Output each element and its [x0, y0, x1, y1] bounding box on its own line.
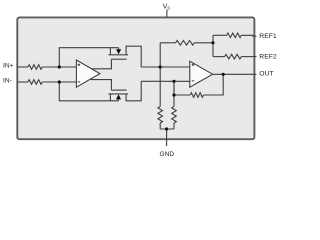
resistor R3 (to GND) [158, 107, 163, 124]
transistor Q1 source stub [109, 48, 111, 55]
op-amp A2 plus marker [192, 64, 195, 67]
wire Q1 drain to A2 + node [126, 46, 141, 67]
wire REF node to R6 [213, 34, 227, 36]
wire R6 to REF1 pin [241, 34, 256, 37]
op-amp A1 [76, 60, 100, 87]
svg-text:REF1: REF1 [259, 33, 277, 40]
transistor Q1 body arrow (down) [116, 49, 121, 54]
transistor Q1 gate plate [111, 58, 126, 60]
wire REF node to R7 [213, 56, 225, 58]
transistor Q2 channel [108, 93, 128, 95]
svg-text:OUT: OUT [259, 71, 273, 78]
node IN- junction [58, 80, 61, 83]
resistor R8 (A2 feedback) [190, 93, 203, 98]
wire R1 to A1 + input [42, 66, 76, 68]
wire A2 - input node line [141, 80, 190, 82]
transistor Q2 gate plate [111, 89, 126, 91]
wire R5 to REF node [194, 42, 213, 44]
wire A2 output to OUT pin [213, 73, 257, 75]
wire R7 to REF2 pin [241, 56, 256, 58]
node A2 + input junction [159, 65, 162, 68]
node A2 - input junction [172, 80, 175, 83]
wire REF divider tap down to A2 + node and R3 [159, 43, 161, 107]
transistor Q2 body arrow (up) [116, 94, 121, 99]
transistor Q2 body arrow stem [118, 99, 120, 100]
node IN+ junction [58, 65, 61, 68]
wire A2 + input node line [141, 66, 190, 68]
wire OUT feedback drop [203, 74, 223, 95]
resistor R6 (REF1) [227, 33, 242, 38]
op-amp A1 minus marker [78, 81, 81, 83]
wire REF node vertical [212, 35, 214, 56]
Vs supply stub [166, 10, 168, 18]
resistor R1 (IN+ input) [28, 65, 42, 70]
transistor Q1 body arrow stem [118, 48, 120, 50]
node REF divider junction [211, 41, 214, 44]
wire R8 to A2 - node [174, 81, 190, 95]
wire Q2 drain to A2 - node [126, 81, 141, 101]
wire top feedback rail from IN+ node [59, 48, 118, 67]
op-amp A1 plus marker [78, 64, 81, 67]
wire Q1 gate lead to A1 upper output [92, 59, 111, 69]
svg-text:VS: VS [163, 4, 171, 11]
node feedback tap junction [172, 93, 175, 96]
svg-text:IN+: IN+ [3, 62, 14, 69]
svg-text:IN-: IN- [3, 77, 12, 84]
resistor R2 (IN- input) [28, 80, 42, 85]
wire IN- lead [18, 81, 29, 83]
wire R2 to A1 - input [42, 81, 76, 83]
resistor R7 (REF2) [225, 54, 242, 59]
resistor R4 (to GND) [172, 107, 177, 124]
transistor Q2 source stub [109, 94, 111, 101]
IC body box [17, 17, 254, 139]
wire GND bus bar [160, 123, 174, 129]
op-amp A2 minus marker [192, 80, 195, 82]
wire bottom feedback rail from IN- node [59, 82, 118, 101]
wire IN+ lead [18, 66, 29, 68]
node OUT feedback junction [222, 73, 225, 76]
svg-text:REF2: REF2 [259, 53, 277, 60]
op-amp A2 [190, 61, 213, 87]
node GND bus junction [165, 127, 168, 130]
wire A1 lower output to Q2 gate lead [91, 80, 112, 91]
wire A2 - node down to R4 [173, 81, 175, 106]
wire REF tap horizontal [160, 42, 175, 44]
svg-text:GND: GND [160, 151, 175, 158]
transistor Q1 channel [108, 54, 128, 56]
wire GND stub [166, 129, 168, 146]
resistor R5 (feedback divider) [176, 41, 195, 46]
